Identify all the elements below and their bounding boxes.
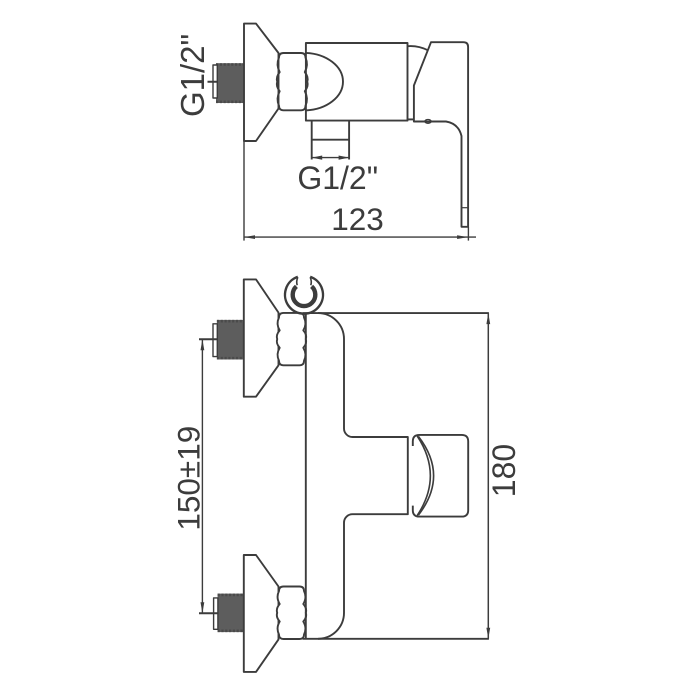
svg-text:G1/2": G1/2" [174,34,211,117]
svg-text:G1/2": G1/2" [297,160,378,196]
svg-text:180: 180 [486,444,522,497]
svg-text:123: 123 [331,201,384,237]
svg-text:150±19: 150±19 [171,426,207,531]
